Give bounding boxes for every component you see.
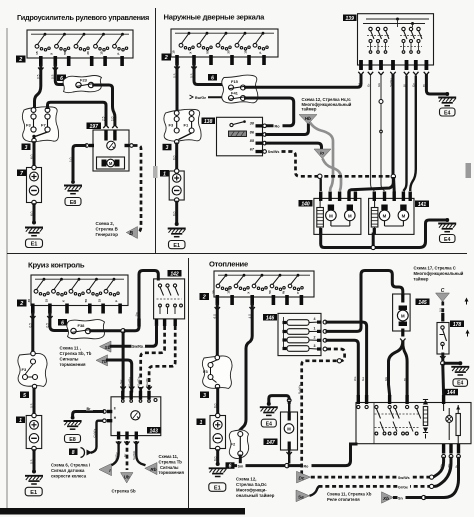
svg-text:30: 30 <box>27 299 31 303</box>
ground symbol E4 mid <box>451 367 469 375</box>
small connector Gb lower <box>380 130 383 133</box>
fuse blob F38 <box>67 320 105 339</box>
arrow Rb <box>145 463 157 475</box>
ignition switch box C <box>27 275 128 314</box>
arrow Tb brake signal 2 <box>96 355 108 366</box>
relay pin stubs <box>256 124 263 127</box>
connector chevron BR pin3 <box>250 307 255 310</box>
pin Ge of 139 <box>359 60 363 70</box>
ground symbol E4 right <box>438 224 456 232</box>
svg-text:Gr: Gr <box>366 84 370 87</box>
svg-text:144: 144 <box>447 390 456 396</box>
clutch symbol <box>107 141 116 150</box>
junction dot ground TR <box>175 222 179 226</box>
tag 1 battery TR <box>160 170 169 177</box>
pump left pin <box>89 144 94 147</box>
svg-text:0.5: 0.5 <box>30 403 34 408</box>
tag 140 left mirror <box>299 200 313 207</box>
svg-text:F7: F7 <box>41 123 46 128</box>
svg-text:E1: E1 <box>173 243 180 249</box>
chevron below 145 <box>400 339 405 342</box>
svg-text:1: 1 <box>163 171 166 177</box>
pin above 178 <box>441 313 444 322</box>
dashed wire pump to generator arrow B <box>134 146 142 233</box>
svg-text:Ro: Ro <box>304 464 310 468</box>
svg-text:Sn: Sn <box>398 496 403 500</box>
Sm feed wire <box>236 464 285 467</box>
chevron 143 bottom3 <box>134 442 139 445</box>
dashed heater wire across <box>318 175 392 178</box>
junction circle cruise feed <box>121 329 125 333</box>
svg-text:3: 3 <box>203 393 206 399</box>
svg-text:30: 30 <box>226 50 230 54</box>
svg-text:E8: E8 <box>70 200 77 206</box>
chevrons into 143 <box>120 387 125 390</box>
svg-text:M: M <box>402 213 406 218</box>
svg-text:ональный таймер: ональный таймер <box>236 493 275 498</box>
junction dot E8 BL <box>71 416 75 420</box>
svg-text:147: 147 <box>266 440 275 446</box>
wire Sn <box>395 496 422 499</box>
wire junction to ground E4 mid <box>445 362 460 365</box>
bottom pins 144 <box>442 444 445 454</box>
wavy wire 145 to heater switch b <box>403 343 407 396</box>
speed sensor connector symbol <box>81 448 93 458</box>
svg-text:30: 30 <box>86 51 90 55</box>
svg-text:8: 8 <box>72 450 75 456</box>
svg-text:E1: E1 <box>30 490 37 496</box>
wire battery to ground BR <box>216 451 219 464</box>
tiny diode mark right <box>456 406 460 410</box>
junction dot ground BR <box>216 462 220 466</box>
mid blades <box>380 422 384 432</box>
svg-text:P: P <box>117 53 121 55</box>
wire 147 top stub <box>288 402 290 412</box>
junction circle Sw/Ws <box>430 475 434 479</box>
svg-text:M: M <box>109 161 113 166</box>
note text multifunction timer TR <box>302 97 352 112</box>
svg-text:M: M <box>287 426 291 431</box>
mirror assembly box 140 <box>314 192 361 235</box>
wire F23 out to pump <box>94 85 115 124</box>
tag 197 pump <box>87 123 102 130</box>
gray scan tick center divider <box>153 166 158 178</box>
svg-text:Bl: Bl <box>403 378 407 381</box>
left pins II H <box>107 410 113 413</box>
clutch symbol 143 <box>131 411 140 420</box>
svg-text:15: 15 <box>35 51 39 55</box>
arrow C <box>436 288 450 302</box>
aux pump box 147 <box>281 412 298 450</box>
svg-text:15A: 15A <box>227 287 231 293</box>
svg-text:30: 30 <box>212 290 216 294</box>
junction circle rail <box>371 245 375 249</box>
chevron below 178 <box>440 356 445 359</box>
wire 144 pin to Gr/Ge dashed <box>436 458 452 486</box>
tag 147 pump <box>264 439 278 446</box>
svg-text:скорости колеса: скорости колеса <box>51 474 87 479</box>
svg-text:0.5: 0.5 <box>438 307 442 312</box>
junction dot ground BL <box>32 470 36 474</box>
resistor 2 <box>456 414 460 436</box>
connector circles relay pins <box>263 124 267 128</box>
arrow Hb <box>299 115 317 125</box>
svg-text:F3: F3 <box>22 367 27 372</box>
wire Sw/Ro to mirror boxes <box>349 179 393 192</box>
svg-text:Стрелка Sb, Tb: Стрелка Sb, Tb <box>60 351 92 356</box>
divider vertical top half <box>155 8 157 254</box>
svg-text:Sa: Sa <box>298 494 304 499</box>
ground symbol E1 BL <box>25 476 43 484</box>
dashed wire 143 pin2 to Ub <box>126 441 129 470</box>
thermal switch box 178 <box>437 323 449 355</box>
svg-text:2: 2 <box>202 295 206 301</box>
svg-text:II: II <box>114 407 116 411</box>
note text brake signals <box>60 346 92 368</box>
svg-text:P: P <box>258 52 262 54</box>
wire BL pin2 to fuse F38 <box>50 314 68 331</box>
svg-text:Xb: Xb <box>382 496 389 501</box>
wire F2 to Sm line <box>239 456 242 466</box>
curve Sa to dashed <box>310 486 320 495</box>
ground symbol E1 top-left <box>25 228 43 236</box>
svg-text:Dc: Dc <box>299 476 305 481</box>
connector chevron TR pin1 <box>174 67 179 70</box>
dashed wire C to thermal switch <box>441 302 444 314</box>
junction dot E4 bl <box>267 402 271 406</box>
stub right mirror to rail <box>372 234 375 246</box>
wire resistor pin2 to heater switch <box>327 340 358 395</box>
svg-text:W: W <box>281 291 285 294</box>
pin Br of 139 <box>425 60 429 70</box>
svg-text:Схема 6, Стрелка I: Схема 6, Стрелка I <box>51 463 90 468</box>
svg-text:таймер: таймер <box>302 107 317 112</box>
note text generator <box>96 221 119 237</box>
svg-text:Gr/Ws: Gr/Ws <box>92 428 96 437</box>
svg-text:Отопление: Отопление <box>209 260 248 269</box>
connector chevron up pump pin2 <box>112 125 117 128</box>
resistor vertical <box>423 407 427 426</box>
svg-text:M: M <box>383 213 387 218</box>
connector chevron BL pin2 <box>47 316 52 319</box>
tag 145 blower motor <box>416 299 430 306</box>
svg-text:Ub: Ub <box>124 474 130 479</box>
tag 1 battery BL <box>16 417 25 424</box>
inline connector circle Gb <box>379 100 383 104</box>
fuse blob F2 <box>229 430 248 459</box>
svg-text:E4: E4 <box>444 110 450 116</box>
svg-text:Реле отопителя: Реле отопителя <box>327 497 360 502</box>
label Sw/Ws <box>398 475 412 480</box>
wire pin15 to fuse F3 <box>35 66 41 108</box>
dashed wire 142 to 143 a <box>141 326 165 391</box>
fuse box blob F3 F1 top-right <box>164 109 201 144</box>
connector chevron pinX A <box>53 68 58 71</box>
power steering pump box 197 <box>89 130 130 171</box>
tag 2 ignition C <box>17 300 27 308</box>
tag 143 cruise module <box>147 427 161 434</box>
lamp <box>446 416 453 423</box>
fuse blob F23 <box>63 76 101 93</box>
cruise control switch box 142 <box>154 279 185 319</box>
wire junction down to mirror140 heater pin <box>320 179 322 192</box>
chevron 143 bottom1 <box>116 442 121 445</box>
connector chevron up pump pin1 <box>103 125 108 128</box>
svg-text:6.0: 6.0 <box>173 155 177 160</box>
svg-text:Sw: Sw <box>119 379 123 384</box>
gray wire Io to mirror 140 <box>323 159 342 192</box>
svg-text:2.5: 2.5 <box>102 116 106 121</box>
battery A <box>27 165 42 204</box>
switch cluster left 139 <box>367 27 389 53</box>
svg-text:146: 146 <box>266 315 275 321</box>
svg-text:Gb: Gb <box>384 377 388 381</box>
wire Sw/Ro main feed down <box>392 76 395 175</box>
svg-text:Схема 11 ,: Схема 11 , <box>60 346 81 351</box>
wire battery to ground BL <box>33 451 36 472</box>
junction circle Sw/Ro dashed <box>391 174 395 178</box>
svg-text:50: 50 <box>268 290 272 294</box>
svg-text:E1: E1 <box>31 242 38 248</box>
arrow Io <box>314 149 331 159</box>
tag 146 resistor pack <box>263 314 277 321</box>
svg-text:1.0: 1.0 <box>111 116 115 121</box>
svg-text:F1: F1 <box>184 123 189 128</box>
svg-text:Круиз контроль: Круиз контроль <box>28 261 85 270</box>
tag 6 fuse F15/F41 <box>208 74 217 81</box>
svg-text:Sw/Ws: Sw/Ws <box>268 150 280 154</box>
note text brake signals 2 <box>159 454 185 475</box>
pump right pin <box>125 144 130 147</box>
diode top <box>423 400 428 405</box>
ignition switch box D <box>212 271 314 305</box>
wavy wire 145 to heater switch a <box>389 343 403 396</box>
svg-text:2: 2 <box>314 335 316 339</box>
svg-text:E4: E4 <box>444 237 450 243</box>
svg-text:Схема 2,: Схема 2, <box>96 221 114 226</box>
page left border <box>6 28 8 508</box>
tag 144 heater switch <box>444 389 458 396</box>
svg-text:2: 2 <box>19 301 23 307</box>
svg-text:Стрелка B: Стрелка B <box>96 226 118 231</box>
svg-text:145: 145 <box>418 300 427 306</box>
svg-text:Sw/Ro: Sw/Ro <box>132 344 144 348</box>
resistor cartridge 3 <box>283 347 287 350</box>
svg-text:Ro/Ws: Ro/Ws <box>297 384 301 394</box>
tag 142 cruise switch <box>168 270 182 277</box>
E4 terminal box top <box>440 108 456 116</box>
divider horizontal middle <box>7 253 467 255</box>
svg-text:E8: E8 <box>69 437 76 443</box>
tag 138 relay <box>202 118 216 125</box>
svg-text:6: 6 <box>61 320 64 326</box>
wire relay86 to arrow Hb <box>267 124 309 135</box>
wire 144 pin to Sw/Ws dashed <box>434 458 444 477</box>
chevron below 147 <box>287 452 292 455</box>
wire F7 top to pump left pin <box>48 102 107 124</box>
wire fuse to battery BR <box>216 389 219 416</box>
svg-text:E1: E1 <box>214 486 221 492</box>
svg-text:15: 15 <box>171 50 175 54</box>
E1 terminal box TR <box>169 241 186 250</box>
wire BL pin1 down to fuse F3 <box>31 314 34 353</box>
svg-text:Стрелка Sb: Стрелка Sb <box>112 489 137 494</box>
tag 6 fuse F23 <box>57 75 66 82</box>
wire fuse to battery <box>33 143 36 168</box>
svg-text:6: 6 <box>211 75 214 81</box>
relay coil <box>229 131 247 137</box>
connector circles 143 left <box>103 410 107 414</box>
label Ro on relay30 wire <box>274 123 283 128</box>
wire Br pin to ground E4 top <box>426 76 447 95</box>
label Sn <box>398 495 406 500</box>
connector circle pump left <box>85 144 89 148</box>
dashed wire relay67 heater feed <box>282 152 318 177</box>
diode bottom <box>423 428 428 433</box>
svg-text:торможения: торможения <box>159 470 185 475</box>
ground symbol E1 BR <box>209 468 227 476</box>
svg-text:M: M <box>401 313 405 318</box>
svg-text:6.0: 6.0 <box>214 403 218 408</box>
svg-text:Схема 11,: Схема 11, <box>159 454 179 459</box>
junction circle heater left <box>318 174 322 178</box>
switch blades <box>376 409 380 419</box>
wire junction up to switch 142 <box>125 271 158 331</box>
battery D <box>210 413 226 450</box>
svg-text:Sw/Gb: Sw/Gb <box>132 450 136 460</box>
tag 8 speed sensor <box>69 449 78 456</box>
pins bottom of 142 <box>155 319 158 327</box>
connector chevron pin15 A <box>38 68 43 71</box>
svg-text:торможения: торможения <box>60 362 87 367</box>
svg-text:Sw/Br: Sw/Br <box>145 378 149 386</box>
svg-text:M: M <box>329 213 333 218</box>
junction dot E4 top <box>445 92 449 96</box>
svg-text:Сигналы: Сигналы <box>60 357 79 362</box>
thin wire Gr to mirror 141 <box>371 76 375 192</box>
wire resistor pin1 up and over to blower 145 <box>327 271 403 332</box>
gray scan tick right edge <box>466 163 472 178</box>
tag 2 ignition B <box>162 54 172 62</box>
svg-text:Стрелка Tb: Стрелка Tb <box>159 459 183 464</box>
svg-text:Ro: Ro <box>275 125 281 129</box>
svg-text:Gb: Gb <box>377 83 381 87</box>
svg-text:Sw/Ro: Sw/Ro <box>128 377 132 386</box>
svg-text:Ge: Ge <box>357 83 361 87</box>
E8 terminal box BL <box>65 435 81 443</box>
note text multifunction timer SaDc <box>236 477 275 499</box>
svg-text:6: 6 <box>229 464 232 470</box>
wire Sn to 144 pin <box>426 458 459 497</box>
svg-text:Io: Io <box>320 151 324 156</box>
wire battery to ground TR <box>175 202 178 224</box>
wire 143 II to ground E8 <box>73 412 103 418</box>
svg-text:P: P <box>296 292 300 294</box>
connector chevron TR pin2 <box>191 67 196 70</box>
arrow Sb brake signal <box>100 341 112 352</box>
svg-text:F2: F2 <box>231 442 236 447</box>
label Sw/Ro on brake wire <box>132 343 146 349</box>
linkage dashed <box>375 413 420 415</box>
wire F41 out loop to relay pin30 <box>246 98 294 126</box>
label Br <box>86 406 93 411</box>
svg-text:таймер: таймер <box>414 277 429 282</box>
svg-text:6.0: 6.0 <box>30 211 34 216</box>
svg-text:1: 1 <box>200 420 203 426</box>
wire resistor pin4 to heater switch <box>327 322 367 395</box>
E4 terminal box bottom <box>261 419 276 427</box>
svg-text:F3: F3 <box>203 369 208 374</box>
pin Sw/Ro of 139 <box>391 60 395 70</box>
svg-text:Sm: Sm <box>238 464 244 468</box>
tag 139 mirror switch <box>343 15 357 22</box>
junction circle Sn <box>422 495 426 499</box>
thin wire Gb to mirror 141 <box>380 76 382 100</box>
svg-text:6: 6 <box>60 76 63 82</box>
svg-text:Схема 12,: Схема 12, <box>236 477 256 482</box>
inline pin on 142 feed <box>137 319 140 327</box>
svg-text:3: 3 <box>25 145 28 151</box>
switch cluster right 139 <box>400 27 422 53</box>
svg-text:Sw/Ws: Sw/Ws <box>398 476 410 480</box>
svg-text:178: 178 <box>453 322 462 328</box>
svg-text:140: 140 <box>301 201 310 207</box>
connector chevron BL pin1 <box>30 316 35 319</box>
svg-text:Bw/Ge: Bw/Ge <box>195 96 206 100</box>
tag 178 thermal switch <box>450 321 464 328</box>
fuse F7 <box>45 114 50 119</box>
junction dot at ground A <box>32 221 36 225</box>
svg-text:M: M <box>348 213 352 218</box>
junction circle on dashed <box>337 359 341 363</box>
arrow Xb <box>382 492 394 503</box>
ignition switch box B <box>171 29 278 65</box>
svg-text:E4: E4 <box>266 421 272 427</box>
gray wire Hb to mirror 140 <box>310 123 333 192</box>
bottom black bar <box>0 508 245 515</box>
pin Gr of 139 <box>369 60 373 70</box>
svg-text:F41: F41 <box>231 91 239 96</box>
svg-text:6.0: 6.0 <box>30 154 34 159</box>
svg-text:Схема 17, Стрелка C: Схема 17, Стрелка C <box>414 266 456 271</box>
wire Ro continues <box>289 444 356 466</box>
svg-text:1.0: 1.0 <box>69 157 73 162</box>
arrow Dc <box>297 471 311 483</box>
svg-text:Bl/Ro: Bl/Ro <box>114 452 118 460</box>
svg-text:F15: F15 <box>231 79 239 84</box>
fuse box blob F3 BL <box>18 351 47 388</box>
svg-text:139: 139 <box>346 16 355 22</box>
tag 141 right mirror <box>415 201 429 208</box>
wire fuse to battery BL <box>33 389 36 416</box>
connector chevron BR pin1 <box>215 307 220 310</box>
dashed Gr/Ge line <box>319 485 430 488</box>
svg-text:Многофункциональный: Многофункциональный <box>414 271 464 276</box>
wire relay85 to arrow Io <box>267 143 322 149</box>
tag 2 ignition D <box>200 293 210 301</box>
arrow I <box>99 464 112 476</box>
svg-text:F38: F38 <box>78 323 86 328</box>
svg-text:15: 15 <box>243 50 247 54</box>
mirror adjusting switch box 139 <box>358 14 434 65</box>
wire 147 top to E4 <box>269 396 289 404</box>
junction dot E4 mid <box>458 361 462 365</box>
top pins <box>357 395 360 404</box>
wire Gn to mirror 141 <box>410 76 416 192</box>
svg-text:Hb: Hb <box>305 116 311 121</box>
note text heater relay Xb <box>327 491 372 502</box>
wire 147 bottom to Sm line <box>288 450 290 464</box>
